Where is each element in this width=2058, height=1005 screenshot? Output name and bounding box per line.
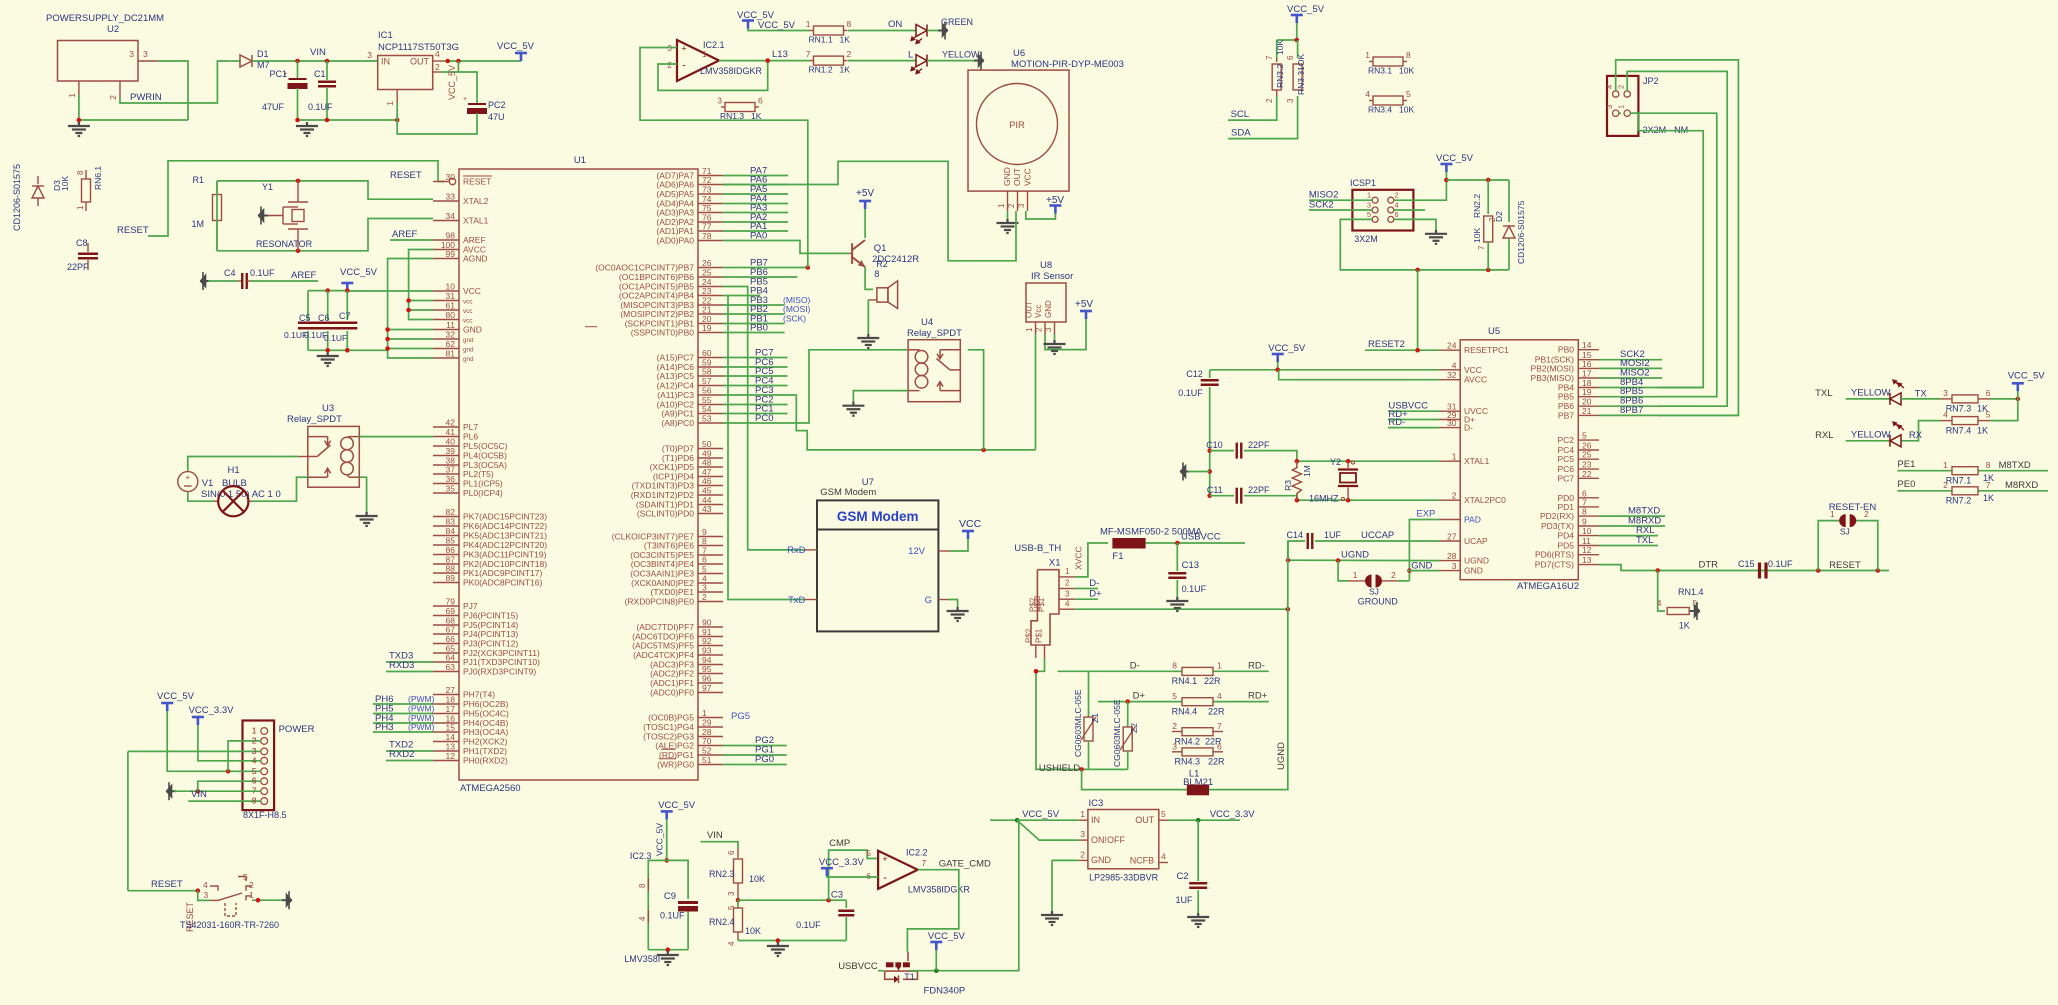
wire to VCC_5V right [1990, 398, 2018, 400]
svg-text:CD1206-S01575: CD1206-S01575 [1516, 200, 1526, 264]
svg-text:5: 5 [1161, 809, 1166, 819]
svg-text:3: 3 [727, 891, 736, 896]
svg-text:1: 1 [67, 93, 77, 98]
POWER pin 1 [261, 728, 268, 735]
net PA2 [723, 221, 788, 223]
svg-text:25: 25 [702, 268, 712, 278]
svg-text:AREF: AREF [392, 229, 418, 240]
svg-text:89: 89 [446, 573, 456, 583]
svg-text:6: 6 [758, 96, 763, 106]
svg-text:80: 80 [446, 310, 456, 320]
svg-text:PWRIN: PWRIN [130, 92, 162, 103]
svg-text:41: 41 [446, 427, 456, 437]
svg-text:VCC_5V: VCC_5V [340, 267, 378, 278]
svg-text:81: 81 [446, 349, 456, 359]
svg-text:15: 15 [446, 723, 456, 733]
svg-text:12V: 12V [908, 546, 926, 557]
svg-text:+: + [681, 44, 686, 54]
POWER pin 3 [261, 748, 268, 755]
U5 pin 26 PC4 [1578, 449, 1599, 451]
LED RX yellow [1890, 435, 1901, 447]
svg-text:42: 42 [446, 418, 456, 428]
U1 pin 95 (ADC2)PF2 [698, 673, 723, 675]
resistor RN4.2 22R [1172, 731, 1182, 733]
resistor RN2.4 10K [737, 900, 739, 908]
svg-text:PD6(RTS): PD6(RTS) [1535, 550, 1574, 560]
X1 pin2 D- [1059, 588, 1075, 590]
net PG1 [723, 754, 787, 756]
U1 pin 87 PK2(ADC10PCINT18) [433, 563, 459, 565]
svg-text:LP2985-33DBVR: LP2985-33DBVR [1089, 873, 1159, 883]
POWER pin 7 [261, 788, 268, 795]
svg-text:PL1(ICP5): PL1(ICP5) [463, 479, 503, 489]
svg-text:GND: GND [1411, 560, 1432, 571]
svg-text:23: 23 [702, 286, 712, 296]
wire RESET2 vertical [1417, 270, 1419, 350]
U1 pin 25 (OC1BPCINT6)PB6 [698, 276, 723, 278]
op-amp IC2.2 LMV358IDGKR [878, 851, 918, 889]
resistor RN1.2 1K [785, 60, 810, 62]
svg-text:VCC_5V: VCC_5V [658, 800, 696, 811]
net MOSI2 [1599, 367, 1662, 369]
svg-text:RESET-EN: RESET-EN [1829, 502, 1877, 513]
svg-text:USHIELD: USHIELD [1039, 763, 1080, 774]
svg-text:2: 2 [1395, 191, 1399, 200]
svg-text:8: 8 [1406, 50, 1411, 60]
U1 pin 97 (ADC0)PF0 [698, 692, 723, 694]
U1 pin 64 PJ1(TXD3PCINT10) [433, 661, 459, 663]
svg-text:2: 2 [1007, 203, 1016, 208]
svg-text:2: 2 [435, 62, 440, 72]
svg-text:C13: C13 [1182, 560, 1199, 571]
net PH3 PWM [373, 731, 433, 733]
svg-text:99: 99 [446, 249, 456, 259]
svg-text:6: 6 [1986, 388, 1991, 398]
net PA3 [723, 212, 788, 214]
resistor RN6.1 [85, 170, 87, 179]
wire relay common to V1 [298, 456, 308, 458]
U1 pin 98 AREF [433, 239, 459, 241]
svg-text:50: 50 [702, 439, 712, 449]
svg-text:0.1UF: 0.1UF [324, 333, 347, 343]
U1 pin 68 PJ5(PCINT14) [433, 624, 459, 626]
svg-text:PB5: PB5 [1558, 392, 1574, 402]
svg-text:PC2: PC2 [1557, 435, 1574, 445]
svg-text:P$1: P$1 [1035, 628, 1044, 643]
U5 pin 17 PB3(MISO) [1578, 377, 1599, 379]
svg-text:PAD: PAD [1464, 515, 1481, 525]
svg-text:3: 3 [203, 890, 208, 900]
U1 pin 52 (RD)PG1 [698, 754, 723, 756]
svg-text:AVCC: AVCC [1464, 375, 1487, 385]
svg-text:VIN: VIN [310, 47, 326, 58]
svg-text:(T3INT6)PE6: (T3INT6)PE6 [644, 541, 694, 551]
svg-text:7: 7 [922, 858, 927, 868]
svg-text:RN7.2: RN7.2 [1946, 496, 1972, 506]
svg-text:(MOSIPCINT2)PB2: (MOSIPCINT2)PB2 [620, 309, 694, 319]
wire RESET vertical to POWER pin3 [128, 750, 261, 752]
net USBVCC to UVCC [1388, 410, 1440, 412]
U1 pin 74 (AD4)PA4 [698, 203, 723, 205]
U1 pin 3 (TXD0)PE1 [698, 591, 723, 593]
svg-text:PJ7: PJ7 [463, 601, 478, 611]
source V1 BULB [178, 472, 198, 492]
capacitor C14 1UF + UCCAP [1315, 540, 1440, 542]
svg-text:1M: 1M [191, 219, 204, 229]
svg-text:3: 3 [1452, 561, 1457, 571]
svg-text:USBVCC: USBVCC [838, 961, 878, 972]
svg-text:VCC: VCC [1023, 168, 1033, 186]
U5 pin 24 RESETPC1 [1440, 349, 1461, 351]
svg-text:(AD3)PA3: (AD3)PA3 [656, 208, 694, 218]
svg-text:RN3.31OK: RN3.31OK [1296, 54, 1306, 95]
svg-text:PC1: PC1 [269, 69, 287, 79]
GSM RxD pin [805, 549, 817, 551]
net PG0 [723, 764, 787, 766]
diode D1 M7 [228, 60, 240, 62]
svg-text:ATMEGA2560: ATMEGA2560 [460, 783, 521, 794]
wire opamp output to L13 [719, 60, 785, 62]
svg-text:64: 64 [446, 653, 456, 663]
svg-text:4: 4 [252, 755, 257, 765]
svg-text:C1: C1 [314, 69, 326, 79]
U1 pin 47 (ICP1)PD4 [698, 476, 723, 478]
net RD+ to D+ [1388, 419, 1440, 421]
U5 pin 31 UVCC [1440, 410, 1461, 412]
U1 pin 67 PJ4(PCINT13) [433, 633, 459, 635]
svg-text:21: 21 [1582, 406, 1592, 416]
U1 pin 31 vcc [433, 300, 459, 302]
svg-text:3: 3 [1943, 388, 1948, 398]
divider mid node [736, 898, 741, 903]
svg-text:(OC0B)PG5: (OC0B)PG5 [648, 713, 694, 723]
ground [657, 951, 679, 965]
svg-text:61: 61 [446, 301, 456, 311]
svg-text:4: 4 [1365, 89, 1370, 99]
wire relay coil bottom to gnd [359, 477, 366, 512]
capacitor C6 [327, 291, 329, 320]
U5 pin 9 PD3(TX) [1578, 525, 1599, 527]
svg-text:C8: C8 [76, 238, 88, 248]
svg-text:2: 2 [1452, 491, 1457, 501]
svg-text:PH1(TXD2): PH1(TXD2) [463, 746, 507, 756]
svg-text:2: 2 [1080, 849, 1085, 859]
capacitor C3 0.1UF [845, 900, 847, 908]
ground [767, 942, 789, 956]
svg-text:IN: IN [1091, 815, 1100, 825]
svg-text:RXD3: RXD3 [389, 660, 414, 671]
svg-text:UGND: UGND [1341, 550, 1369, 561]
svg-text:(OC2APCINT4)PB4: (OC2APCINT4)PB4 [619, 291, 694, 301]
svg-text:LMV358IDGKR: LMV358IDGKR [700, 66, 763, 76]
POWER pin 6 [261, 778, 268, 785]
wire VCC_3.3V to POWER pin4 [198, 725, 261, 761]
ground [1166, 597, 1188, 611]
svg-text:Relay_SPDT: Relay_SPDT [287, 414, 342, 425]
svg-text:X1: X1 [1049, 558, 1061, 569]
svg-text:0.1UF: 0.1UF [1178, 388, 1203, 398]
svg-text:3: 3 [1065, 589, 1070, 598]
svg-text:1: 1 [806, 19, 811, 29]
svg-text:3: 3 [1172, 741, 1177, 751]
svg-text:13: 13 [1582, 555, 1592, 565]
X1 pin3 D+ [1059, 598, 1075, 600]
svg-text:8: 8 [638, 883, 647, 888]
IC1 pin2 wire [433, 71, 441, 73]
net PC5 [723, 375, 788, 377]
svg-text:30: 30 [446, 172, 456, 182]
net PA6 [723, 184, 788, 186]
svg-text:gnd: gnd [463, 337, 474, 344]
net PA0 to Q1 base [723, 241, 849, 254]
svg-text:2: 2 [1265, 98, 1274, 103]
wire VCC_5V to U5 VCC AVCC [1277, 362, 1279, 370]
svg-text:vcc: vcc [463, 318, 472, 325]
U1 pin 22 (MISOPCINT3)PB3 [698, 304, 723, 306]
wire AREF to U1 pin98 [390, 239, 433, 241]
svg-text:60: 60 [702, 348, 712, 358]
U5 pin 4 VCC [1440, 369, 1461, 371]
PIR pins [1007, 191, 1009, 211]
svg-text:D1: D1 [257, 49, 269, 59]
resonator Y1 loop top [217, 181, 433, 199]
svg-text:1: 1 [249, 890, 254, 900]
svg-text:PC7: PC7 [1557, 473, 1574, 483]
svg-text:C10: C10 [1206, 440, 1223, 450]
svg-text:93: 93 [702, 646, 712, 656]
svg-text:8X1F-H8.5: 8X1F-H8.5 [243, 810, 287, 820]
resistor RN3.3 10K [1297, 40, 1299, 58]
svg-text:VCC_5V: VCC_5V [1022, 809, 1060, 820]
svg-text:U4: U4 [921, 317, 933, 328]
svg-text:16: 16 [1582, 359, 1592, 369]
ground PIR pin1 [1007, 211, 1009, 219]
svg-text:FDN340P: FDN340P [924, 986, 966, 997]
svg-text:U2: U2 [107, 24, 119, 35]
svg-text:16MHZ: 16MHZ [1309, 494, 1339, 504]
svg-text:(PWM): (PWM) [408, 704, 435, 714]
U1 pin 2 (RXD0PCIN8)PE0 [698, 601, 723, 603]
U1 pin 86 PK3(ADC11PCINT19) [433, 554, 459, 556]
net SCK2 [1599, 359, 1662, 361]
svg-text:L13: L13 [772, 49, 788, 60]
resistor RN1.1 1K [810, 30, 814, 32]
svg-text:GND: GND [1464, 566, 1483, 576]
svg-text:VCC_5V: VCC_5V [655, 823, 665, 856]
svg-text:RN4.1: RN4.1 [1172, 676, 1198, 686]
svg-text:85: 85 [446, 536, 456, 546]
U1 pin 63 PJ0(RXD3PCINT9) [433, 671, 459, 673]
svg-text:P$1: P$1 [1037, 597, 1046, 612]
svg-text:GATE_CMD: GATE_CMD [939, 859, 991, 870]
IC3 NCFB stub [1159, 862, 1168, 864]
svg-text:VIN: VIN [191, 789, 207, 800]
net GND U5 [1407, 570, 1439, 572]
U1 pin 35 PL0(ICP4) [433, 492, 459, 494]
capacitor C1 0.1UF [326, 61, 328, 80]
svg-text:(AD0)PA0: (AD0)PA0 [656, 236, 694, 246]
wire AGND chain [388, 259, 433, 359]
svg-text:IN: IN [381, 57, 390, 67]
U1 pin 83 PK6(ADC14PCINT22) [433, 525, 459, 527]
svg-text:RN2.2: RN2.2 [1472, 194, 1482, 218]
svg-text:(RXD0PCIN8)PE0: (RXD0PCIN8)PE0 [625, 597, 695, 607]
svg-text:(PWM): (PWM) [408, 694, 435, 704]
svg-text:7: 7 [1477, 245, 1486, 250]
svg-text:1: 1 [1080, 809, 1085, 819]
svg-text:GND: GND [463, 325, 482, 335]
svg-text:(ADC1)PF1: (ADC1)PF1 [650, 678, 694, 688]
ground arrow crystal [1180, 463, 1190, 481]
svg-text:1: 1 [997, 203, 1006, 208]
wire VCC rail to pin10 [347, 290, 433, 292]
ground [1187, 913, 1209, 927]
wire pin2 down to PC2 [458, 72, 477, 103]
svg-text:RXD2: RXD2 [389, 749, 414, 760]
svg-text:PK1(ADC9PCINT17): PK1(ADC9PCINT17) [463, 568, 543, 578]
U1 pin 40 PL5(OC5C) [433, 445, 459, 447]
wire RESET pin3 to button [127, 751, 129, 890]
svg-text:(ADC0)PF0: (ADC0)PF0 [650, 688, 694, 698]
svg-text:VCC_5V: VCC_5V [157, 691, 195, 702]
wire F1 to USBVCC [1146, 542, 1245, 544]
svg-text:(TXD0)PE1: (TXD0)PE1 [651, 587, 695, 597]
svg-text:(T0)PD7: (T0)PD7 [662, 444, 694, 454]
U5 pin 32 AVCC [1440, 379, 1461, 381]
U1 pin 8 (T3INT6)PE6 [698, 545, 723, 547]
net D- to RD- [1058, 670, 1269, 672]
svg-text:52: 52 [702, 746, 712, 756]
svg-text:PK4(ADC12PCINT20): PK4(ADC12PCINT20) [463, 540, 547, 550]
svg-text:36: 36 [446, 474, 456, 484]
wire pullup tops [1277, 39, 1298, 41]
svg-text:27: 27 [1447, 532, 1457, 542]
wire VCC_5V to POWER pins 5 and 2 [167, 711, 261, 771]
net PC4 [723, 385, 788, 387]
svg-text:2: 2 [847, 49, 852, 59]
U5 pin 5 PC2 [1578, 439, 1599, 441]
wire U8 GND [1054, 334, 1056, 340]
svg-text:Relay_SPDT: Relay_SPDT [907, 328, 962, 339]
resistor RN4.4 22R [1182, 698, 1213, 706]
U1 pin 18 PH6(OC2B) [433, 703, 459, 705]
svg-text:4: 4 [1657, 598, 1662, 608]
svg-text:0.1UF: 0.1UF [1768, 559, 1793, 569]
ground arrow [938, 22, 948, 40]
svg-text:RN7.3: RN7.3 [1946, 404, 1972, 414]
svg-text:6: 6 [252, 776, 257, 786]
net PA4 [723, 203, 788, 205]
net PE1 M8TXD row [1897, 470, 2048, 472]
svg-text:1: 1 [1830, 509, 1835, 519]
svg-text:XTAL1: XTAL1 [463, 216, 489, 226]
svg-text:VCC_5V: VCC_5V [447, 65, 457, 100]
svg-text:1: 1 [702, 708, 707, 718]
svg-text:H1: H1 [228, 465, 240, 476]
net PA5 [723, 193, 788, 195]
wire speaker to gnd [867, 300, 869, 334]
ground [857, 334, 879, 348]
U1 pin 54 (A9)PC1 [698, 413, 723, 415]
svg-text:IC2.2: IC2.2 [906, 848, 928, 858]
net PB5 to GSM RxD [723, 287, 805, 550]
svg-text:JP2: JP2 [1643, 76, 1659, 86]
varistor Z2 CG0603MLC-05E [1127, 702, 1129, 727]
net RD- to D- [1388, 427, 1440, 429]
GSM 12V pin [938, 550, 950, 552]
svg-text:P$2: P$2 [1025, 628, 1034, 643]
net 8PB6 [1599, 405, 1727, 407]
svg-text:UGND: UGND [1276, 742, 1287, 770]
svg-text:1K: 1K [1983, 493, 1994, 503]
svg-text:PH3(OC4A): PH3(OC4A) [463, 727, 509, 737]
svg-text:TxD: TxD [788, 595, 806, 606]
U1 pin 48 (XCK1)PD5 [698, 466, 723, 468]
svg-text:T1: T1 [904, 972, 915, 982]
wire ICSP pin5 to reset rail [1340, 219, 1509, 270]
U1 pin 24 (OC1APCINT5)PB5 [698, 286, 723, 288]
svg-text:46: 46 [702, 476, 712, 486]
svg-text:8: 8 [1172, 661, 1177, 671]
svg-text:UCAP: UCAP [1464, 536, 1488, 546]
svg-text:PH3: PH3 [375, 722, 393, 733]
U1 pin 12 PH0(RXD2) [433, 760, 459, 762]
svg-text:(AD1)PA1: (AD1)PA1 [656, 226, 694, 236]
svg-text:C4: C4 [224, 268, 236, 278]
svg-text:8PB7: 8PB7 [1620, 405, 1643, 416]
U1 pin 78 (AD0)PA0 [698, 240, 723, 242]
svg-text:7: 7 [806, 49, 811, 59]
U1 pin 28 (TOSC2)PG3 [698, 736, 723, 738]
svg-text:(A13)PC5: (A13)PC5 [657, 371, 695, 381]
svg-text:RXL: RXL [1815, 430, 1833, 441]
capacitor PC2 47U [467, 104, 487, 114]
svg-text:(OC1BPCINT6)PB6: (OC1BPCINT6)PB6 [619, 272, 694, 282]
svg-text:7: 7 [252, 786, 257, 796]
svg-text:4: 4 [638, 916, 647, 921]
svg-text:POWER: POWER [279, 724, 315, 735]
svg-text:RESET: RESET [390, 170, 422, 181]
svg-text:0.1UF: 0.1UF [250, 268, 275, 278]
resistor RN3.2 10K [1276, 40, 1278, 58]
svg-text:31: 31 [446, 291, 456, 301]
svg-text:2: 2 [1035, 327, 1044, 332]
svg-text:PB3(MISO): PB3(MISO) [1531, 373, 1575, 383]
net EXP to PAD [1409, 520, 1439, 581]
svg-text:PD3(TX): PD3(TX) [1541, 521, 1574, 531]
U1 pin 81 gnd [433, 357, 459, 359]
svg-text:5: 5 [243, 872, 248, 882]
svg-text:GND: GND [1091, 855, 1112, 865]
svg-text:IR Sensor: IR Sensor [1031, 271, 1073, 282]
net SCK2 at ICSP [1309, 209, 1372, 211]
svg-text:14: 14 [1582, 340, 1592, 350]
svg-text:30: 30 [1447, 418, 1457, 428]
U1 pin 23 (OC2APCINT4)PB4 [698, 295, 723, 297]
capacitor C13 0.1UF [1176, 543, 1178, 571]
ground [356, 512, 378, 526]
svg-text:8: 8 [1582, 507, 1587, 517]
svg-text:4: 4 [1943, 410, 1948, 420]
U1 pin 71 (AD7)PA7 [698, 175, 723, 177]
svg-text:RX: RX [1909, 430, 1923, 441]
svg-text:YELLOW: YELLOW [1851, 429, 1891, 440]
net PC1 [723, 413, 788, 415]
svg-text:PB0: PB0 [750, 323, 768, 334]
svg-text:GSM Modem: GSM Modem [837, 509, 919, 524]
svg-text:22R: 22R [1204, 676, 1221, 686]
svg-text:66: 66 [446, 634, 456, 644]
